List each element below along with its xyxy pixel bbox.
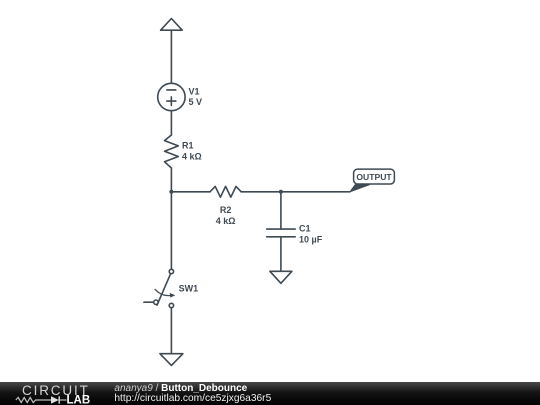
wire C1 to ground [280, 237, 282, 271]
wire R1 to node A [170, 168, 172, 192]
wire R2 to node B [241, 191, 281, 193]
ground below SW1 [160, 354, 183, 366]
svg-text:SW1: SW1 [179, 284, 199, 294]
junction node A [169, 190, 173, 194]
svg-text:4 kΩ: 4 kΩ [216, 216, 236, 226]
svg-text:4 kΩ: 4 kΩ [182, 151, 202, 161]
svg-text:http://circuitlab.com/ce5zjxg6: http://circuitlab.com/ce5zjxg6a36r5 [114, 393, 271, 404]
footer bar [0, 382, 540, 405]
resistor R2 [210, 186, 241, 197]
wire node B to OUTPUT flag [281, 191, 350, 193]
svg-text:LAB: LAB [67, 395, 91, 405]
wire SW1 to ground [170, 308, 172, 354]
CircuitLab logo schematic: diode [51, 396, 59, 403]
wire VCC to V1 [170, 30, 172, 83]
resistor R1 [165, 135, 179, 168]
wire node A to SW1 [170, 192, 172, 269]
wire node B to C1 [280, 192, 282, 229]
net flag OUTPUT [350, 169, 394, 192]
CircuitLab logo schematic: wire to LAB [59, 399, 66, 401]
svg-text:R2: R2 [220, 205, 232, 215]
power flag VCC [161, 19, 183, 31]
svg-text:C1: C1 [299, 224, 311, 234]
svg-text:V1: V1 [189, 86, 200, 96]
capacitor C1 [267, 229, 296, 237]
switch SW1 [144, 269, 175, 307]
svg-text:10 µF: 10 µF [299, 235, 323, 245]
CircuitLab logo schematic: diode bar [58, 396, 60, 403]
wire V1 to R1 [170, 111, 172, 135]
CircuitLab logo schematic: wire to diode [40, 399, 51, 401]
wire node A to R2 [171, 191, 210, 193]
svg-text:OUTPUT: OUTPUT [356, 172, 392, 182]
CircuitLab logo schematic: resistor squiggle [16, 397, 40, 402]
voltage source V1 [158, 83, 185, 110]
junction node B [279, 190, 283, 194]
svg-text:R1: R1 [182, 141, 194, 151]
svg-text:ananya9 / Button_Debounce: ananya9 / Button_Debounce [114, 383, 247, 394]
ground below C1 [270, 271, 292, 283]
svg-text:5 V: 5 V [189, 97, 203, 107]
